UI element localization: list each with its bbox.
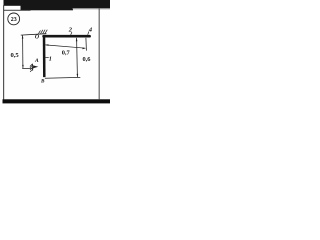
dimension 0,5 line <box>22 35 24 68</box>
bottom black band <box>3 99 111 103</box>
svg-text:B: B <box>40 79 45 85</box>
frame top thin line <box>4 9 31 12</box>
ceiling hatching <box>38 30 47 34</box>
top black band (scan artifact) left part <box>4 0 22 6</box>
hinge wall line at A <box>32 64 34 71</box>
frame left rule <box>2 5 5 99</box>
0,7 right extension line <box>85 38 88 51</box>
leader to label 4 <box>88 32 89 35</box>
svg-text:A: A <box>34 58 39 64</box>
dimension 0,5 up arrow <box>22 35 24 38</box>
svg-text:0,7: 0,7 <box>62 50 71 57</box>
svg-text:4: 4 <box>88 26 92 33</box>
hinge pivot wedge <box>33 65 38 68</box>
dimension 0,7 left arrow <box>45 44 48 46</box>
dimension 0,6 up arrow <box>76 38 78 42</box>
frame right rule <box>98 8 101 99</box>
leader to label 2 <box>71 32 72 35</box>
svg-text:0,6: 0,6 <box>83 56 92 63</box>
top black band middle part <box>21 0 74 10</box>
dimension 0,7 right arrow <box>83 48 86 50</box>
svg-text:1: 1 <box>49 55 52 62</box>
dimension 0,6 down arrow <box>77 74 79 77</box>
hinge wall hatching <box>30 64 33 72</box>
ceiling / extension line from O to 0,5 dimension <box>21 34 47 35</box>
B level reference line <box>45 76 80 79</box>
0,5 bottom extension line <box>22 67 33 69</box>
page background <box>0 0 110 110</box>
dimension 0,7 line <box>45 45 85 48</box>
problem number circle 23 <box>8 13 20 25</box>
dimension 0,6 line <box>76 38 79 77</box>
leader to label 1 <box>45 57 48 59</box>
rod 1 vertical bar <box>43 35 46 77</box>
dimension 0,5 down arrow <box>22 65 24 68</box>
svg-text:23: 23 <box>11 17 17 23</box>
svg-text:0,5: 0,5 <box>10 52 19 59</box>
top black band right part <box>73 0 111 8</box>
rod 2 horizontal bar <box>44 35 90 38</box>
